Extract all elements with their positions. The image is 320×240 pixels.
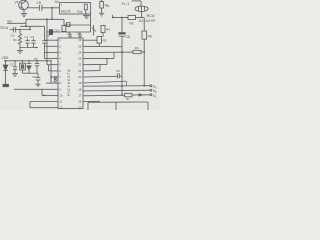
svg-text:R1: R1	[13, 38, 17, 42]
svg-text:RCA: RCA	[147, 14, 155, 18]
svg-text:R7: R7	[126, 97, 130, 101]
svg-text:C8: C8	[126, 35, 130, 39]
svg-text:C6: C6	[32, 75, 36, 79]
svg-text:C6: C6	[37, 1, 41, 5]
svg-text:Co: Co	[77, 31, 81, 35]
svg-text:C3: C3	[24, 35, 28, 39]
svg-text:Vin: Vin	[7, 19, 12, 23]
svg-text:21: 21	[78, 69, 82, 73]
svg-text:12: 12	[59, 105, 63, 109]
svg-text:26: 26	[78, 38, 82, 42]
svg-text:11: 11	[59, 100, 62, 104]
svg-text:C9: C9	[116, 69, 120, 73]
svg-text:19: 19	[78, 81, 82, 85]
svg-text:C3: C3	[10, 62, 14, 66]
svg-text:R6: R6	[148, 34, 152, 38]
svg-text:25: 25	[78, 44, 82, 48]
svg-text:C5: C5	[34, 57, 38, 61]
svg-text:10: 10	[59, 93, 63, 97]
svg-text:C4: C4	[30, 35, 34, 39]
svg-text:PIC16C57A: PIC16C57A	[66, 69, 71, 96]
svg-text:20: 20	[78, 75, 82, 79]
svg-text:C5: C5	[46, 34, 50, 38]
svg-text:R3: R3	[135, 46, 139, 50]
svg-text:23: 23	[78, 57, 82, 61]
svg-text:MCLR: MCLR	[61, 9, 71, 13]
svg-text:24: 24	[78, 51, 82, 55]
svg-text:15: 15	[78, 105, 82, 109]
svg-text:R5: R5	[103, 38, 107, 42]
svg-text:R2: R2	[130, 22, 134, 26]
svg-text:C1: C1	[11, 34, 15, 38]
svg-text:DD: DD	[79, 11, 83, 14]
svg-text:16: 16	[78, 100, 82, 104]
svg-text:D41AXXP: D41AXXP	[139, 19, 157, 23]
svg-text:RCA: RCA	[0, 26, 8, 30]
svg-text:Cs: Cs	[67, 31, 71, 35]
svg-text:N1: N1	[55, 0, 59, 4]
svg-text:22: 22	[78, 63, 82, 67]
svg-text:18: 18	[78, 87, 82, 91]
svg-text:C10: C10	[54, 29, 60, 33]
svg-text:R4: R4	[106, 28, 110, 32]
svg-text:YL-1: YL-1	[122, 2, 130, 6]
svg-text:VT: VT	[15, 1, 19, 5]
svg-text:VDD: VDD	[2, 56, 9, 60]
svg-text:17: 17	[78, 93, 82, 97]
